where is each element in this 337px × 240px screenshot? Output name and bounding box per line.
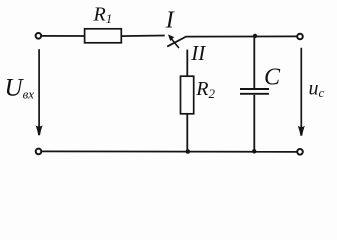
svg-text:R2: R2 — [195, 78, 215, 101]
svg-text:R1: R1 — [93, 4, 113, 27]
svg-text:C: C — [264, 65, 281, 91]
svg-text:I: I — [165, 7, 175, 33]
svg-text:Uвх: Uвх — [5, 74, 35, 101]
svg-text:II: II — [190, 41, 206, 65]
svg-text:uc: uc — [309, 78, 325, 101]
